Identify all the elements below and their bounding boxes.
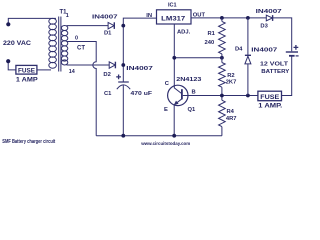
transistor Q1 2N4123: [168, 85, 188, 105]
svg-text:www.circuitstoday.com: www.circuitstoday.com: [140, 141, 190, 146]
svg-text:R1: R1: [208, 31, 216, 37]
svg-text:240: 240: [205, 40, 215, 46]
transformer T1 primary winding: [49, 18, 57, 68]
node: R2/R4/base junction: [220, 94, 224, 98]
svg-text:IC1: IC1: [168, 2, 177, 8]
node: D1 cathode junction: [121, 24, 125, 28]
diode D1 IN4007: [108, 22, 114, 29]
wire: C1 to ground rail: [122, 85, 124, 135]
svg-text:BATTERY: BATTERY: [261, 69, 289, 75]
svg-text:D2: D2: [103, 72, 110, 78]
node: D4 bottom junction: [246, 94, 250, 98]
wire: bottom AC input line to left fuse: [8, 62, 16, 70]
svg-text:R2: R2: [227, 73, 234, 79]
node: C1 ground junction: [121, 134, 125, 138]
wire: LM317 ADJ down, right to R1/R2 junction, and down to Q1 collector: [174, 24, 181, 93]
svg-text:IN4007: IN4007: [251, 47, 277, 53]
svg-text:ADJ.: ADJ.: [177, 29, 191, 35]
svg-text:470 uF: 470 uF: [131, 91, 153, 97]
svg-text:2N4123: 2N4123: [176, 77, 202, 83]
wire: LM317 OUT rail to top-right corner and down to battery: [191, 18, 292, 51]
svg-text:IN4007: IN4007: [256, 9, 282, 15]
svg-text:D1: D1: [104, 30, 112, 36]
capacitor C1 470uF plus sign: [116, 75, 121, 80]
svg-text:IN4007: IN4007: [126, 66, 153, 72]
resistor R2 2K7: [219, 58, 226, 96]
transformer T1 secondary winding: [61, 25, 67, 65]
svg-text:1 AMP: 1 AMP: [16, 76, 38, 83]
op-amp: IC1 LM317 regulator box: [157, 10, 192, 24]
svg-text:220 VAC: 220 VAC: [3, 40, 32, 47]
wire: left fuse to primary bottom: [37, 69, 51, 71]
node: R1 top junction: [220, 16, 224, 20]
wire: Q1 emitter down to ground rail: [173, 105, 175, 136]
wire: secondary pin 1 to D1 anode: [67, 25, 109, 27]
svg-text:IN4007: IN4007: [92, 15, 118, 21]
wire: D1 node up and right to LM317 IN: [123, 18, 156, 26]
svg-text:C1: C1: [104, 91, 112, 97]
diode D2 IN4007: [109, 62, 115, 69]
wire: rectifier bus from D1 node down through D2 node to C1: [122, 26, 124, 82]
battery B1 12 volt: [286, 45, 299, 56]
svg-text:R4: R4: [227, 109, 235, 115]
diode D4 IN4007 vertical: [245, 18, 251, 96]
node: D4 top junction: [246, 16, 250, 20]
node: ADJ junction: [172, 56, 176, 60]
resistor R4 4R7: [219, 96, 226, 136]
node: emitter ground junction: [172, 134, 176, 138]
node: bottom input terminal dot: [6, 59, 10, 63]
svg-text:12 VOLT: 12 VOLT: [260, 62, 289, 68]
svg-text:Q1: Q1: [188, 107, 197, 113]
wire: Q1 base to R2/R4 junction row: [188, 95, 222, 97]
node: D2 cathode junction: [121, 63, 125, 67]
svg-text:B: B: [192, 90, 196, 96]
svg-text:FUSE: FUSE: [260, 95, 279, 101]
svg-text:CT: CT: [77, 45, 85, 51]
resistor R1 240: [219, 18, 226, 58]
svg-text:0: 0: [75, 35, 78, 41]
node: top input terminal dot: [6, 22, 10, 26]
svg-text:D4: D4: [235, 47, 243, 53]
svg-text:IN: IN: [146, 13, 152, 19]
svg-text:1: 1: [66, 13, 69, 19]
wire: ground rail: [96, 135, 222, 137]
svg-text:LM317: LM317: [161, 15, 185, 22]
svg-text:14: 14: [69, 69, 75, 75]
wire: secondary pin 14 to D2 anode: [67, 64, 110, 66]
svg-text:1 AMP.: 1 AMP.: [258, 104, 282, 110]
svg-text:E: E: [164, 107, 168, 113]
fuse F2 box: [258, 91, 282, 101]
wire: CT tap with hop over pin-14 wire, down to ground rail: [67, 42, 96, 136]
wire: top AC input line to transformer primary top: [8, 18, 56, 23]
transformer T1 core: [59, 17, 61, 72]
node: R1 bottom junction: [220, 56, 224, 60]
fuse F1 box: [16, 65, 37, 74]
svg-text:C: C: [165, 81, 170, 87]
wire: base row to right fuse and D4 bottom: [222, 95, 258, 97]
svg-text:4R7: 4R7: [226, 116, 237, 122]
capacitor C1 plates: [118, 81, 129, 83]
svg-text:D3: D3: [260, 24, 268, 30]
svg-text:SMF Battery charger circuit: SMF Battery charger circuit: [2, 139, 55, 145]
svg-text:2K7: 2K7: [226, 79, 237, 85]
wire: battery negative down to right fuse: [282, 57, 292, 96]
diode D3 IN4007: [266, 15, 272, 21]
svg-text:FUSE: FUSE: [18, 68, 35, 74]
